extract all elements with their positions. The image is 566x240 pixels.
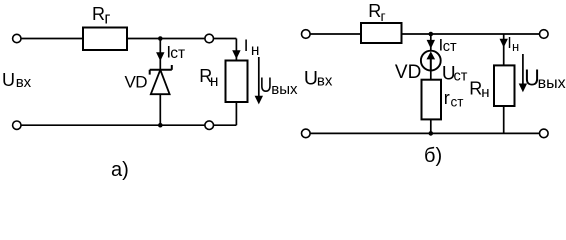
svg-text:н: н xyxy=(251,42,260,59)
svg-text:вых: вых xyxy=(538,75,566,92)
svg-text:ст: ст xyxy=(170,45,185,62)
svg-text:н: н xyxy=(210,73,219,90)
svg-text:R: R xyxy=(92,4,105,24)
svg-text:б): б) xyxy=(424,145,442,167)
svg-text:вх: вх xyxy=(16,74,32,91)
svg-text:ст: ст xyxy=(451,95,464,110)
svg-text:R: R xyxy=(368,1,381,21)
svg-text:г: г xyxy=(104,10,110,28)
svg-text:ст: ст xyxy=(443,39,457,55)
svg-text:вых: вых xyxy=(271,81,298,98)
svg-text:U: U xyxy=(260,73,272,97)
svg-text:г: г xyxy=(381,8,386,24)
svg-text:а): а) xyxy=(111,159,129,181)
svg-text:I: I xyxy=(244,36,249,55)
svg-text:ст: ст xyxy=(454,68,468,84)
svg-text:VD: VD xyxy=(395,62,421,83)
svg-text:r: r xyxy=(444,88,450,108)
svg-text:U: U xyxy=(304,68,318,90)
svg-text:н: н xyxy=(512,39,519,54)
svg-text:н: н xyxy=(481,84,489,101)
svg-text:VD: VD xyxy=(125,73,148,92)
svg-text:вх: вх xyxy=(317,73,333,90)
svg-text:U: U xyxy=(2,70,15,90)
